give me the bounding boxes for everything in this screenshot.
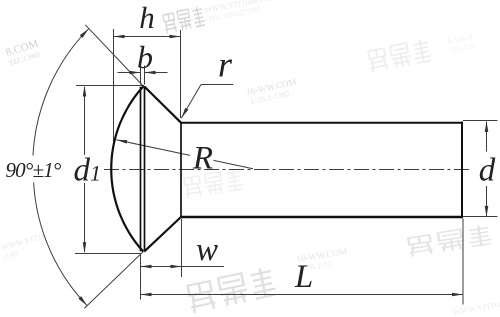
arrow d top (points up) xyxy=(485,121,489,132)
arrow L left xyxy=(141,293,152,297)
svg-text:WWW.YJT16: WWW.YJT16 xyxy=(0,231,46,252)
svg-text:w: w xyxy=(196,232,218,268)
arrow angle-arc top xyxy=(80,29,89,38)
cone top line xyxy=(144,86,181,122)
arrow r leader (points down-left) xyxy=(181,108,188,118)
d1 extension line top xyxy=(76,85,144,87)
arrow d1 bottom (points down) xyxy=(83,242,87,253)
watermark center faint xyxy=(183,168,243,199)
arrow w left xyxy=(141,265,152,269)
cone/shank junction line xyxy=(180,123,182,217)
svg-text:L: L xyxy=(294,259,313,295)
centerline xyxy=(104,169,469,171)
R leader right segment xyxy=(214,160,254,168)
svg-text:90°±1°: 90°±1° xyxy=(5,158,61,182)
w extension line right xyxy=(181,219,183,277)
angle dimension arc lower part xyxy=(34,183,87,306)
h extension line right xyxy=(180,30,182,118)
d dimension line upper segment xyxy=(486,122,488,152)
h extension line left xyxy=(113,29,115,146)
watermark top-left xyxy=(4,38,42,68)
r leader shoulder xyxy=(201,84,233,86)
watermark bottom-right corner faint xyxy=(453,299,500,317)
w dimension line with tail xyxy=(141,266,225,268)
L dimension line xyxy=(141,294,464,296)
cone bottom line xyxy=(144,217,181,252)
svg-text:WWW.YJT1688: WWW.YJT1688 xyxy=(453,299,500,317)
head edge line left xyxy=(140,87,142,251)
arrow angle-arc bottom xyxy=(78,296,87,305)
arrow R leader (points up-left at arc) xyxy=(116,140,127,144)
d1 extension line bottom xyxy=(75,253,141,255)
angle dimension arc upper part xyxy=(33,29,89,156)
h dimension line xyxy=(114,36,181,38)
arrow w right xyxy=(171,265,182,269)
b extension line right xyxy=(144,66,146,85)
b extension line left xyxy=(140,66,142,85)
watermark top-center xyxy=(162,6,206,34)
arrow d bottom (points down) xyxy=(485,206,489,217)
watermark top-right faint xyxy=(367,38,432,73)
r leader diagonal xyxy=(181,85,201,119)
arrow b right (points left) xyxy=(145,71,156,75)
d1 dimension line upper segment xyxy=(84,87,86,155)
head edge line right xyxy=(144,87,146,252)
watermark mid-left-center xyxy=(245,77,299,107)
arrow h right xyxy=(170,35,181,39)
L extension line right xyxy=(462,219,464,305)
watermark bottom-center large xyxy=(186,266,277,313)
arrow L right xyxy=(452,293,463,297)
b dimension tail left xyxy=(118,72,141,74)
w extension line left (shared with L) xyxy=(140,254,142,300)
d extension line top xyxy=(463,120,498,122)
svg-text:h: h xyxy=(139,0,155,35)
svg-text:d: d xyxy=(479,153,496,189)
shank bottom line xyxy=(181,216,462,218)
construction line lower 45deg xyxy=(84,252,143,309)
d extension line bottom xyxy=(463,216,498,218)
watermark bottom-right xyxy=(407,224,492,257)
watermark left-bottom faint xyxy=(0,231,49,260)
d dimension line lower segment xyxy=(486,186,488,216)
head crown arc xyxy=(111,87,143,252)
arrow d1 top (points up) xyxy=(83,86,87,97)
b dimension tail right xyxy=(145,72,168,74)
shank top line xyxy=(181,122,462,124)
shank end line xyxy=(461,122,463,219)
svg-text:b: b xyxy=(137,39,153,75)
svg-text:R: R xyxy=(192,141,213,177)
svg-text:d1: d1 xyxy=(74,153,102,189)
R leader left segment xyxy=(116,140,190,156)
construction line upper 45deg xyxy=(85,25,144,87)
d1 dimension line lower segment xyxy=(84,183,86,252)
arrow h left xyxy=(114,35,125,39)
svg-text:r: r xyxy=(218,45,233,85)
arrow b left (points right) xyxy=(130,71,141,75)
